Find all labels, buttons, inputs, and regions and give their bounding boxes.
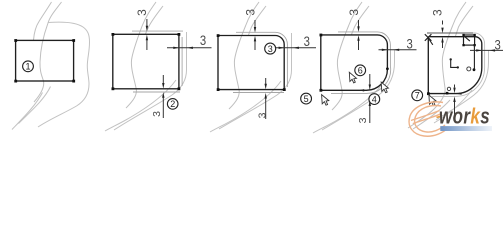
svg-text:3: 3 [135,9,149,16]
svg-text:works: works [439,105,490,130]
svg-text:3: 3 [243,9,257,16]
svg-text:2: 2 [170,99,175,109]
svg-text:3: 3 [357,117,369,123]
svg-text:3: 3 [256,112,268,118]
svg-text:3: 3 [347,9,361,16]
svg-text:1: 1 [25,62,30,72]
svg-text:3: 3 [407,36,413,52]
svg-text:3: 3 [200,32,206,48]
svg-text:3: 3 [494,36,500,52]
svg-text:7: 7 [415,91,420,101]
svg-text:5: 5 [304,94,309,104]
svg-text:3: 3 [431,9,445,16]
svg-text:3: 3 [151,111,163,117]
svg-text:4: 4 [372,94,377,104]
svg-text:3: 3 [304,33,310,49]
svg-text:6: 6 [358,66,363,76]
svg-text:3: 3 [268,44,273,54]
